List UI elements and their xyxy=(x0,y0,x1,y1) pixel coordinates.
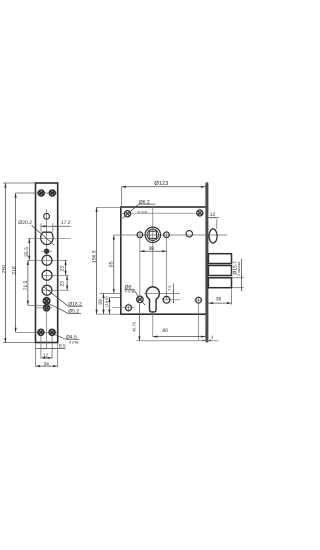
cylinder centerline horizontal xyxy=(100,292,121,294)
dim 8.5 line xyxy=(36,348,66,350)
C3 centerline xyxy=(42,289,69,291)
leader O6.2 xyxy=(123,204,156,218)
svg-text:80: 80 xyxy=(162,328,168,334)
ring2 centerline xyxy=(36,307,53,309)
dim 23 lower line xyxy=(66,275,68,290)
dim O15.7 ext top xyxy=(232,277,244,279)
dim 250 line xyxy=(4,183,6,343)
main axis centerline xyxy=(114,234,228,236)
filled small hole xyxy=(44,249,49,254)
body outline xyxy=(121,207,207,314)
leader O8 xyxy=(124,288,134,290)
hole bottom-right xyxy=(196,297,202,303)
screw bottom-left xyxy=(38,329,44,335)
svg-text:156.5: 156.5 xyxy=(91,250,97,263)
leader O4.5 xyxy=(54,334,79,339)
dim 3 arrows xyxy=(203,340,212,341)
svg-text:34: 34 xyxy=(43,361,49,367)
lone circle xyxy=(186,231,192,237)
dim 85 line xyxy=(113,235,115,293)
dim O15.7 line xyxy=(241,259,243,291)
svg-text:(19.5): (19.5) xyxy=(104,296,109,307)
deadbolt 3 xyxy=(208,278,231,288)
dim 8.5 arrows xyxy=(44,348,56,349)
dim 29 line xyxy=(103,293,105,314)
dim 156.5 line xyxy=(96,207,98,314)
hole C3 xyxy=(42,285,52,295)
svg-text:4 отв.: 4 отв. xyxy=(69,339,80,344)
side hole left vertical tick xyxy=(139,231,141,297)
centerline vertical xyxy=(46,209,48,349)
side hole right xyxy=(164,232,170,238)
dim 71.5 ext bottom xyxy=(28,304,44,306)
hole bottom-right v line down xyxy=(198,296,200,340)
hole bottom-left h tick xyxy=(113,307,135,309)
dim 36 line xyxy=(208,302,231,304)
svg-text:8.5: 8.5 xyxy=(59,344,66,350)
dim 38 line xyxy=(140,250,167,252)
svg-text:250: 250 xyxy=(2,265,8,274)
dim 12 line xyxy=(209,217,219,219)
leader O16.2 xyxy=(43,286,83,306)
side hole right long vertical xyxy=(166,231,168,301)
leader O5.2 xyxy=(49,304,81,314)
hole O8 xyxy=(137,296,144,303)
dim O15.7 arrows xyxy=(241,275,242,291)
screw ext right xyxy=(51,336,53,358)
leader O20.2 xyxy=(32,225,55,245)
dim 46.75 line xyxy=(138,304,140,342)
holes bottom line a xyxy=(136,299,143,301)
dim O123 line xyxy=(121,186,205,188)
svg-text:85: 85 xyxy=(109,261,115,267)
C2 centerline xyxy=(42,274,69,276)
bottom small ring 2 xyxy=(44,305,50,311)
D-hole centerline xyxy=(28,237,70,239)
dim 17 line xyxy=(41,357,52,359)
spindle vertical centerline xyxy=(152,207,154,337)
screw ext left xyxy=(40,336,42,358)
dim 250 ext top xyxy=(3,182,36,184)
screw top-left xyxy=(38,190,44,196)
side hole left xyxy=(137,232,143,238)
svg-text:23: 23 xyxy=(60,266,66,272)
svg-text:218: 218 xyxy=(12,266,18,275)
dim 35.5 line xyxy=(28,238,30,260)
dim 71.5 line xyxy=(27,260,29,305)
svg-text:Ø20.2: Ø20.2 xyxy=(18,220,32,226)
small hole top xyxy=(44,213,50,219)
svg-text:Ø16.2: Ø16.2 xyxy=(68,301,82,307)
svg-text:7.5: 7.5 xyxy=(167,285,172,291)
cylinder centerline again over fill xyxy=(144,292,180,294)
svg-text:23: 23 xyxy=(60,281,66,287)
svg-text:38: 38 xyxy=(149,246,155,252)
bottom screws centerline xyxy=(16,331,58,333)
dim 17.2 ext ticks xyxy=(40,223,42,231)
svg-text:46.75: 46.75 xyxy=(132,321,137,332)
plate edge ext right xyxy=(57,343,59,367)
dim 80 line xyxy=(153,336,206,338)
euro cylinder xyxy=(146,287,159,312)
dim 250 ext bottom xyxy=(3,342,36,344)
spindle middle circle xyxy=(147,229,158,240)
dim 218 line xyxy=(15,193,17,332)
hole top-left O6.2 xyxy=(124,211,130,217)
hole C2 xyxy=(42,270,52,280)
dim 17.2 line xyxy=(41,225,71,227)
dim O15.7 ext bottom xyxy=(232,287,244,289)
deadbolt 1 xyxy=(208,254,231,264)
hole top-right xyxy=(197,210,203,216)
dim O123 ext xyxy=(120,187,122,207)
spindle square xyxy=(149,231,156,238)
svg-text:12: 12 xyxy=(210,212,216,218)
svg-text:Ø123: Ø123 xyxy=(154,180,168,187)
svg-text:Ø5.2: Ø5.2 xyxy=(68,309,79,315)
hole bottom-left xyxy=(126,305,132,311)
latch bolt xyxy=(209,229,217,243)
C1 centerline xyxy=(28,259,67,261)
holes bottom line b xyxy=(162,299,180,301)
top screws centerline xyxy=(16,192,58,194)
dim 7.5 arrows xyxy=(173,291,174,303)
faceplate outline xyxy=(36,183,58,343)
hole mid-bottom xyxy=(163,296,170,303)
svg-text:36: 36 xyxy=(216,297,222,303)
dim 12 ext xyxy=(216,219,218,229)
D-shaped handle hole xyxy=(41,232,53,244)
bottom small ring 1 xyxy=(43,298,49,304)
plate edge ext left xyxy=(35,343,37,367)
deadbolt 2 xyxy=(208,266,231,276)
top edge ext xyxy=(96,206,121,208)
svg-text:35.5: 35.5 xyxy=(24,247,30,257)
screw top-right xyxy=(49,190,55,196)
leader O8 diagonal xyxy=(134,289,146,305)
face strip xyxy=(205,182,208,342)
hole C1 xyxy=(42,255,52,265)
svg-text:4 отв.: 4 отв. xyxy=(138,209,149,214)
svg-text:3 засова: 3 засова xyxy=(237,262,241,276)
svg-text:17: 17 xyxy=(43,353,49,359)
filled hole centerline xyxy=(41,250,52,252)
dim 36 ext xyxy=(231,289,233,305)
svg-text:4 отв.: 4 отв. xyxy=(125,289,136,294)
hole bottom-left v tick xyxy=(128,303,130,312)
dim 19.5 line xyxy=(108,298,110,315)
dim 23 upper line xyxy=(65,260,67,275)
dim 19.5 ext xyxy=(109,297,120,299)
spindle outer circle xyxy=(145,227,160,242)
bottom edge ext xyxy=(96,313,121,315)
top-right hole vertical tick xyxy=(199,209,201,218)
dim 17.2 right arrow xyxy=(53,226,56,227)
bottom long line xyxy=(136,340,218,342)
svg-text:17.2: 17.2 xyxy=(61,220,71,226)
dim 12 arrows xyxy=(209,217,217,218)
hole bottom-right h tick xyxy=(194,299,202,301)
svg-text:3: 3 xyxy=(211,335,214,340)
svg-text:Ø6.2: Ø6.2 xyxy=(139,199,150,205)
svg-text:71.5: 71.5 xyxy=(23,280,29,290)
dim 7.5 line xyxy=(172,284,174,303)
screw bottom-right xyxy=(49,329,55,335)
top holes line xyxy=(122,212,204,214)
dim 34 line xyxy=(36,365,58,367)
